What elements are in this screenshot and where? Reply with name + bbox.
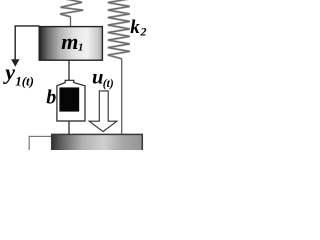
svg-text:b: b <box>46 87 56 109</box>
svg-text:1: 1 <box>78 42 84 54</box>
svg-text:u: u <box>92 67 103 89</box>
svg-text:m: m <box>61 29 78 54</box>
svg-text:2: 2 <box>140 24 147 38</box>
svg-text:(t): (t) <box>103 78 114 90</box>
svg-text:1(t): 1(t) <box>15 74 34 89</box>
svg-text:k: k <box>130 17 140 38</box>
